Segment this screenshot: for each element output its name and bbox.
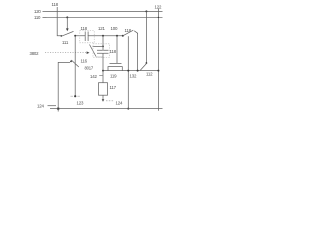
arrowhead below resistor [102,99,105,102]
wire: top rail 1 [47,10,163,12]
switch 112 upper contact dot [146,62,148,64]
junction dot V6/rail2 [158,17,159,18]
junction dot on rail2 at x67 [66,16,68,18]
wire: vertical from switch 116 down to W2 [137,34,139,71]
transistor 119 gate lead [116,36,118,64]
switch 110 blade [71,60,79,67]
svg-text:116: 116 [81,59,88,64]
switch 110 contact dot [70,61,72,63]
transistor 119 gate bar [110,62,122,64]
svg-text:112: 112 [146,72,153,77]
svg-text:118: 118 [52,2,59,7]
wire: vertical V3 from W1 down to open dot [74,36,76,96]
svg-text:123: 123 [77,100,84,105]
switch 111 left contact dot [61,35,63,37]
svg-text:117: 117 [110,85,117,90]
junction dot rail1/V5 [145,10,147,12]
wire: V4 continues below capacitor to W2 [102,54,104,71]
junction dot W1/gate lead [116,35,118,37]
junction dot W1/V4 [102,35,104,37]
junction dot W2/drain branch [127,70,129,72]
leader dash for bottom 124 [48,105,57,107]
svg-text:118: 118 [81,26,88,31]
svg-text:122: 122 [155,4,162,9]
junction dot W1/V3 [74,35,76,37]
V3 end dot [74,95,76,97]
wire: data line V6 (122) full height [157,9,159,111]
dashed leader from 1002 [45,52,87,54]
svg-text:121: 121 [98,26,105,31]
svg-text:124: 124 [116,101,123,106]
switch 112 blade [140,63,146,70]
switch 116 contact dot on W1 [122,35,124,37]
switch 116 blade [123,30,134,36]
dashed leader to 124 [106,100,114,102]
capacitor 118 plates [85,32,88,42]
svg-text:100: 100 [111,26,118,31]
svg-text:3802: 3802 [30,51,40,56]
svg-text:8017: 8017 [85,66,94,71]
wire: V4 from W2 down to resistor [102,71,104,83]
wire: vertical V4 from W1 down [102,36,104,50]
svg-text:142: 142 [90,74,97,79]
junction dot V4 above capacitor [102,46,104,48]
switch 111 blade [62,31,74,36]
wire below resistor [102,95,104,99]
leader dash for 120 [43,10,47,12]
svg-text:124: 124 [37,104,44,109]
arrowhead of V2 [66,28,69,31]
transistor 119 channel box [108,67,122,71]
wire: bottom-left branch up from bottom rail, bend right [58,62,70,111]
svg-text:118: 118 [110,49,117,54]
leader dash for 142 [99,74,103,76]
bypass switch stub top [93,45,104,47]
wire: bottom rail [50,108,163,110]
svg-text:119: 119 [110,74,117,79]
bypass switch blade [90,45,97,57]
junction dot W2/switch116 vertical [137,70,139,72]
wire: rail 2 [47,16,163,18]
svg-text:110: 110 [34,15,41,20]
dashed box around capacitor 118b [93,44,110,58]
bypass switch stub bottom [96,56,103,58]
svg-text:132: 132 [130,74,137,79]
wire W1 right of switch 111 [75,35,123,37]
arrowhead of 1002 leader [87,51,90,54]
junction dot W2/V6 [157,70,159,72]
resistor 117 box [99,83,108,96]
junction dot bottom rail/drain branch [127,108,129,110]
dashed box around capacitor 118 [80,31,94,43]
capacitor gap mask [102,51,104,53]
tick marks at node 123 [71,95,80,97]
switch 116 arrow + bend into vertical [134,31,137,34]
wire: vertical V5 from rail1 down to switch 112 contact [145,11,147,62]
wire W2 left segment [103,70,158,72]
leader dash for 110 [43,16,47,18]
junction dot W2/V4 [102,70,104,72]
wire: vertical V1 from label 116 down through rails, bends into W1 [57,7,61,36]
transistor 119 drain lead [127,36,129,108]
wire: control lead V2 for switch 111 [66,17,68,29]
capacitor 118 wire gap mask [86,35,88,37]
svg-text:111: 111 [62,40,69,45]
svg-text:120: 120 [34,9,41,14]
capacitor 118b horizontal plates [97,50,109,53]
svg-text:118: 118 [125,28,132,33]
junction dot bottom rail / left branch [57,108,59,110]
